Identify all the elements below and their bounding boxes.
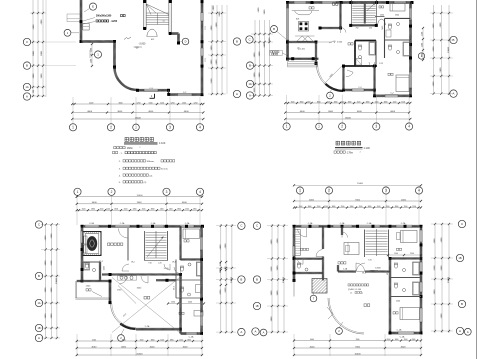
first floor: ne bedroom bed [375,3,405,17]
svg-text:A: A [26,95,28,99]
first floor: bedroom ne label [379,6,384,8]
second floor: void cross lines [112,278,180,333]
second floor: top dimension rows [76,195,203,225]
svg-text:1100: 1100 [185,209,189,211]
svg-text:1800: 1800 [395,339,399,341]
first floor: south wall inner segment [344,89,375,91]
third floor: terrace arc [327,298,364,334]
second floor: room partition east of karaoke [119,228,129,261]
svg-text:15400: 15400 [136,353,143,355]
basement: axis bubble H with leader [181,38,189,45]
first floor: porch north wall [288,41,317,43]
second floor: interior dim row [167,301,205,304]
first floor: east exterior wall [409,3,411,96]
svg-text:M-3: M-3 [151,39,154,41]
svg-text:750: 750 [356,28,359,30]
svg-text:B: B [38,274,40,278]
svg-text:C-2A: C-2A [308,222,313,225]
svg-text:50 mm,: 50 mm, [161,169,169,171]
first floor: right axis dimension column [430,5,453,95]
svg-text:1A: 1A [37,302,40,305]
svg-text:1250: 1250 [160,102,164,104]
second floor: void east wall [179,275,181,334]
svg-text:C: C [26,40,28,44]
first floor: right bathrooms block [382,18,411,58]
second floor: north exterior wall [82,225,203,227]
svg-text:B: B [236,40,238,44]
svg-text:C-2A: C-2A [189,336,194,339]
svg-text:-0.100: -0.100 [299,48,306,50]
svg-text:1100: 1100 [124,209,128,211]
svg-text:1800: 1800 [91,209,95,211]
svg-text:1100: 1100 [327,101,331,103]
second floor: south wall right segment [181,332,202,334]
svg-text:L20: L20 [158,263,161,265]
second floor: interior dims [104,266,170,291]
svg-text:1100: 1100 [169,209,173,211]
third floor: bottom dimension rows [293,334,422,356]
second floor: hall door arcs [122,262,176,272]
svg-text:1500: 1500 [104,266,106,270]
svg-text:-3.000: -3.000 [139,42,146,45]
basement: south wall east segment [169,93,203,95]
third floor: north exterior wall [294,225,421,227]
svg-text:1800: 1800 [114,209,118,211]
first floor plan title [335,141,370,150]
second floor: curved wall thick segment [120,324,135,329]
basement plan: right axis bubbles [233,38,240,45]
svg-text:C: C [240,224,242,228]
third floor: roof hatch square [312,279,327,294]
svg-text:7000: 7000 [356,339,360,341]
svg-text:A: A [236,92,238,96]
third floor: hatch bubble [310,293,317,302]
svg-text:1100: 1100 [160,209,164,211]
second floor: radius annotation [118,286,136,318]
svg-text:1800: 1800 [334,101,338,103]
svg-text:13800: 13800 [56,277,58,284]
third floor: elevation 6.800 [370,267,382,272]
svg-text:M-8: M-8 [296,18,299,20]
svg-text:1500: 1500 [171,301,175,303]
third floor: master bedroom desk [344,243,359,255]
svg-text:W-3: W-3 [174,286,176,289]
second floor: ne room furniture [183,229,200,242]
third floor: corridor south wall with double door [337,263,390,273]
basement plan: left axis bubbles [23,38,30,100]
basement: elevation -3.000 [134,42,147,48]
basement: staircase side walls [143,0,172,35]
svg-text:1100: 1100 [179,339,183,341]
svg-text:3: 3 [169,125,171,129]
svg-text:1B: 1B [458,257,461,260]
basement: top-left wall fragment [67,14,80,22]
svg-text:4000: 4000 [182,202,188,204]
first floor: interior door arcs [341,28,375,77]
basement: interior dim line [90,43,93,67]
second floor: ne room east partition [174,226,202,273]
svg-text:3: 3 [166,190,168,194]
third floor: right bathrooms [362,262,421,297]
svg-text:4000: 4000 [357,111,363,113]
first floor: bedroom west wall [374,66,376,96]
svg-text:E: E [92,5,94,9]
second floor: karaoke room carpet [83,232,101,256]
svg-text:C-2A: C-2A [401,222,406,225]
svg-text:4000: 4000 [89,102,93,104]
svg-text:W-3: W-3 [172,262,175,264]
first floor: bay window triangles [295,36,315,42]
svg-text:1100: 1100 [341,101,345,103]
second floor: wall labels above north wall [89,222,190,225]
third floor: dressing room east wall [316,226,324,280]
third floor: laundry wall [293,272,324,297]
basement: wall stub east of stair [171,32,180,44]
basement plan: left axis dimension column [30,0,76,97]
svg-text:1800: 1800 [187,339,191,341]
third floor: bedroom dim texts [387,253,422,256]
basement: east exterior wall [201,0,203,95]
svg-text:4000: 4000 [184,111,190,113]
first floor: bubble leader below arc [327,88,334,99]
svg-text:13800: 13800 [283,276,285,283]
svg-text:13800: 13800 [448,276,450,283]
svg-text:1100: 1100 [106,209,110,211]
second floor: west bathroom fixtures [82,261,104,272]
svg-text:1800: 1800 [384,101,388,103]
svg-text:300mm,: 300mm, [147,161,155,163]
svg-text:1100: 1100 [299,206,303,208]
svg-text:(2).: (2). [144,182,148,184]
third floor: master room stub wall [341,226,348,237]
svg-text:1500: 1500 [291,101,295,103]
basement plan: right axis dimension column [208,5,227,95]
second floor: vanity fixtures on corridor [118,276,137,281]
svg-text:4000: 4000 [148,111,154,113]
svg-text:15400: 15400 [135,117,142,119]
third floor: ne bedroom bed [397,231,418,251]
basement: pit east wall [113,42,115,68]
svg-text:(2)400-1 1:100: (2)400-1 1:100 [348,289,362,291]
svg-text:1500: 1500 [394,253,398,255]
svg-text:1A: 1A [248,83,251,86]
first floor: north exterior wall [288,1,413,3]
first floor: living room label [348,43,353,45]
svg-text:C: C [461,222,463,226]
svg-text:1250: 1250 [137,102,141,104]
svg-text:1250: 1250 [171,102,175,104]
svg-text:1800: 1800 [308,206,312,208]
basement: squiggle mark [124,37,131,40]
second floor: west bathroom walls [77,262,110,282]
first floor: south wall outer segment [375,95,411,97]
svg-text:1B: 1B [255,305,258,308]
second floor: corridor south wall [156,279,176,282]
svg-text:C-2A: C-2A [185,222,190,225]
svg-text:300x300x1300: 300x300x1300 [96,16,112,18]
svg-text:1800: 1800 [151,209,155,211]
first floor: west exterior wall [286,3,288,60]
basement: bubble left of west wall [64,29,79,36]
second floor: right axis dimension column [216,224,236,333]
first floor: se bedroom [388,73,409,91]
first floor: inner dim column right [421,27,424,61]
svg-text:1B: 1B [37,327,40,330]
svg-text:4000: 4000 [401,346,407,348]
svg-text:1800: 1800 [332,206,336,208]
svg-text:3000: 3000 [328,111,334,113]
svg-text:4000: 4000 [310,346,316,348]
svg-text:C-2A: C-2A [340,222,345,225]
third floor: dressing room closets [295,230,301,256]
svg-text:1100: 1100 [341,206,345,208]
basement: curved wall [115,67,138,90]
svg-text:C-2A: C-2A [120,222,125,225]
basement: pile annotation text [83,14,125,24]
svg-text:6.800: 6.800 [375,267,381,269]
first floor: bedroom door arch [378,19,386,25]
third floor: top axis bubbles [296,187,422,194]
third floor: east exterior wall [420,226,422,333]
first floor: central bathroom block [344,41,378,67]
svg-text:1500: 1500 [149,102,153,104]
svg-text:3000: 3000 [119,102,123,104]
svg-text:C-22: C-22 [379,63,383,65]
sheet right border line [476,0,478,359]
svg-text:C-2A: C-2A [145,325,150,328]
svg-text:1100: 1100 [375,101,379,103]
basement: bubble E leader top [84,3,97,12]
svg-text:1500: 1500 [90,48,92,52]
third floor: left axis dimension column [267,224,288,333]
svg-text:1800: 1800 [151,339,155,341]
svg-text:1: 1 [72,125,74,129]
svg-text:15400: 15400 [354,353,361,355]
svg-text:B: B [461,302,463,306]
basement: bottom dimension rows [71,97,204,126]
svg-text:7000: 7000 [355,346,361,348]
third floor: dressing room door arc [298,229,307,237]
svg-text:1500: 1500 [421,43,423,47]
basement: stair door arch [147,29,157,41]
svg-text:15400: 15400 [345,117,352,119]
svg-text:1100: 1100 [359,206,363,208]
second floor: west balcony [75,281,110,299]
svg-text:1100: 1100 [404,206,408,208]
first floor: entry steps [288,62,318,67]
svg-text:C-2A: C-2A [343,268,348,271]
second floor: left axis bubbles [35,221,42,342]
svg-text:B: B [249,64,251,68]
svg-text:13800: 13800 [231,276,233,283]
svg-text:1250: 1250 [194,102,198,104]
svg-text:1100: 1100 [307,101,311,103]
first floor: left axis bubbles [246,36,254,99]
svg-text:4: 4 [408,125,410,129]
third floor: roof note text [348,284,369,295]
third floor: left axis bubbles [252,222,267,336]
second floor: arc bubble leader [118,329,125,341]
svg-text:1100: 1100 [386,206,390,208]
svg-text:1800: 1800 [368,206,372,208]
svg-text:1100: 1100 [357,101,361,103]
svg-text:1: 1 [286,125,288,129]
first floor: interior wall kitchen east [340,3,342,29]
first floor: wall below stair [349,24,378,30]
svg-text:4000: 4000 [87,111,93,113]
svg-text:3: 3 [375,125,377,129]
svg-text:B: B [240,278,242,282]
basement plan title [124,138,166,146]
svg-text:2500: 2500 [380,14,384,16]
third floor: master bedroom label [338,262,346,264]
svg-text:13800: 13800 [448,46,450,53]
svg-text:200: 200 [33,90,35,93]
second floor: bottom dimension rows [76,334,203,356]
svg-text:A: A [255,330,257,334]
basement plan area text [114,146,141,149]
svg-text:1300: 1300 [193,209,197,211]
svg-text:: 168m: : 168m [126,147,133,150]
third floor: wall under ne bedroom [390,258,421,260]
svg-text:C-2A: C-2A [89,222,94,225]
svg-text:1:100: 1:100 [364,147,371,150]
svg-text:4: 4 [199,190,201,194]
svg-text:15400: 15400 [137,195,144,197]
svg-text:4000: 4000 [91,346,97,348]
first floor: bottom axis bubbles [283,123,413,130]
svg-text:1: 1 [299,189,301,193]
svg-text:1A: 1A [25,85,28,89]
svg-text:3: 3 [385,189,387,193]
svg-text:1300: 1300 [350,206,354,208]
first floor: dining room label [333,3,338,5]
second floor: west exterior wall [81,226,83,281]
svg-text:C-5A: C-5A [151,222,156,225]
first floor: right axis bubbles [450,36,457,97]
svg-text:C: C [256,224,258,228]
svg-text:2500: 2500 [396,301,400,303]
svg-text:1100: 1100 [317,206,321,208]
svg-text:1300: 1300 [133,209,137,211]
svg-text:1100: 1100 [377,206,381,208]
svg-text:T10: T10 [148,263,151,265]
svg-text:B: B [256,278,258,282]
svg-text:A: A [263,330,265,334]
svg-text:1500: 1500 [401,101,405,103]
svg-text:4000: 4000 [401,199,407,201]
svg-text:2: 2 [111,190,113,194]
svg-text:W-2: W-2 [131,262,134,264]
svg-text:7000: 7000 [355,199,361,201]
svg-text:1: 1 [77,190,79,194]
svg-text:4000: 4000 [92,339,96,341]
third floor: arc bubble leader [336,322,343,334]
svg-text:2500: 2500 [188,301,192,303]
svg-text:1100: 1100 [160,339,164,341]
svg-text:1100: 1100 [140,339,144,341]
second floor: mid-right bathrooms [174,260,202,299]
svg-text:2: 2 [328,189,330,193]
second floor: east wall [200,226,202,333]
first floor: porch east wall [315,42,317,64]
svg-text:4000: 4000 [183,346,189,348]
third floor: terrace label [364,304,370,307]
svg-text:D: D [185,39,187,43]
first floor: staircase [352,0,377,25]
first floor: bottom dimension rows [284,95,411,125]
svg-text:1100: 1100 [324,206,328,208]
svg-text:1100: 1100 [142,209,146,211]
svg-text:1300: 1300 [412,339,416,341]
basement plan notes [113,151,175,184]
third floor: top dimension rows [293,183,422,225]
first floor: left axis dimension column [251,7,273,97]
first floor: kitchen label [309,7,314,9]
svg-text:1800: 1800 [170,339,174,341]
basement: interior wall to pit [81,40,115,42]
svg-text:4000: 4000 [310,339,314,341]
second floor: right axis bubbles [238,222,245,336]
svg-text:0.000: 0.000 [337,41,343,43]
third floor: se bedroom [393,301,420,320]
svg-text:B: B [26,64,28,68]
third floor: right axis dimension column [431,223,453,333]
first floor: curved terrace wall [316,65,343,92]
svg-text:7600: 7600 [137,202,143,204]
svg-text:1100: 1100 [404,339,408,341]
first floor: small bubble at east wall [418,53,424,59]
svg-text:4000: 4000 [309,199,315,201]
third floor: staircase [365,229,389,262]
svg-text:-4.200: -4.200 [111,20,118,23]
first floor: radius annotation [324,65,343,84]
second floor: curved wall thin arcs [111,304,137,330]
second floor: wardrobe on west wall [84,236,87,253]
basement: section marker 1 [150,94,155,99]
svg-text:15400: 15400 [357,183,364,185]
svg-text:B: B [453,38,455,42]
svg-text:A: A [453,92,455,96]
first floor: wall from bathroom to south wall [343,66,345,90]
third floor: south wall [390,332,421,334]
svg-text:14: 14 [163,21,165,23]
third floor: right axis bubbles [456,220,471,335]
svg-text:A: A [240,330,242,334]
first floor: kitchen stove [299,22,309,32]
second floor: left axis dimension column [41,223,60,339]
svg-text:1800: 1800 [366,101,370,103]
svg-text:2: 2 [341,125,343,129]
svg-text:3000: 3000 [117,111,123,113]
first floor: porch south wall [287,57,319,60]
svg-text:1100: 1100 [387,339,391,341]
svg-text:2500: 2500 [395,14,399,16]
first floor: hall level line [318,41,332,43]
third floor: wc below dressing room [294,258,323,271]
svg-text:C-2A: C-2A [397,329,402,332]
svg-text:4: 4 [199,125,201,129]
basement: west exterior wall [80,0,82,42]
svg-text:1100: 1100 [100,209,104,211]
svg-text:4000: 4000 [92,202,98,204]
svg-text:A: A [38,336,40,340]
svg-text:4: 4 [418,189,420,193]
svg-text:1800: 1800 [348,101,352,103]
third floor: west exterior wall [293,226,295,280]
third floor: wall labels above north wall [308,222,406,225]
svg-text:C: C [38,223,40,227]
